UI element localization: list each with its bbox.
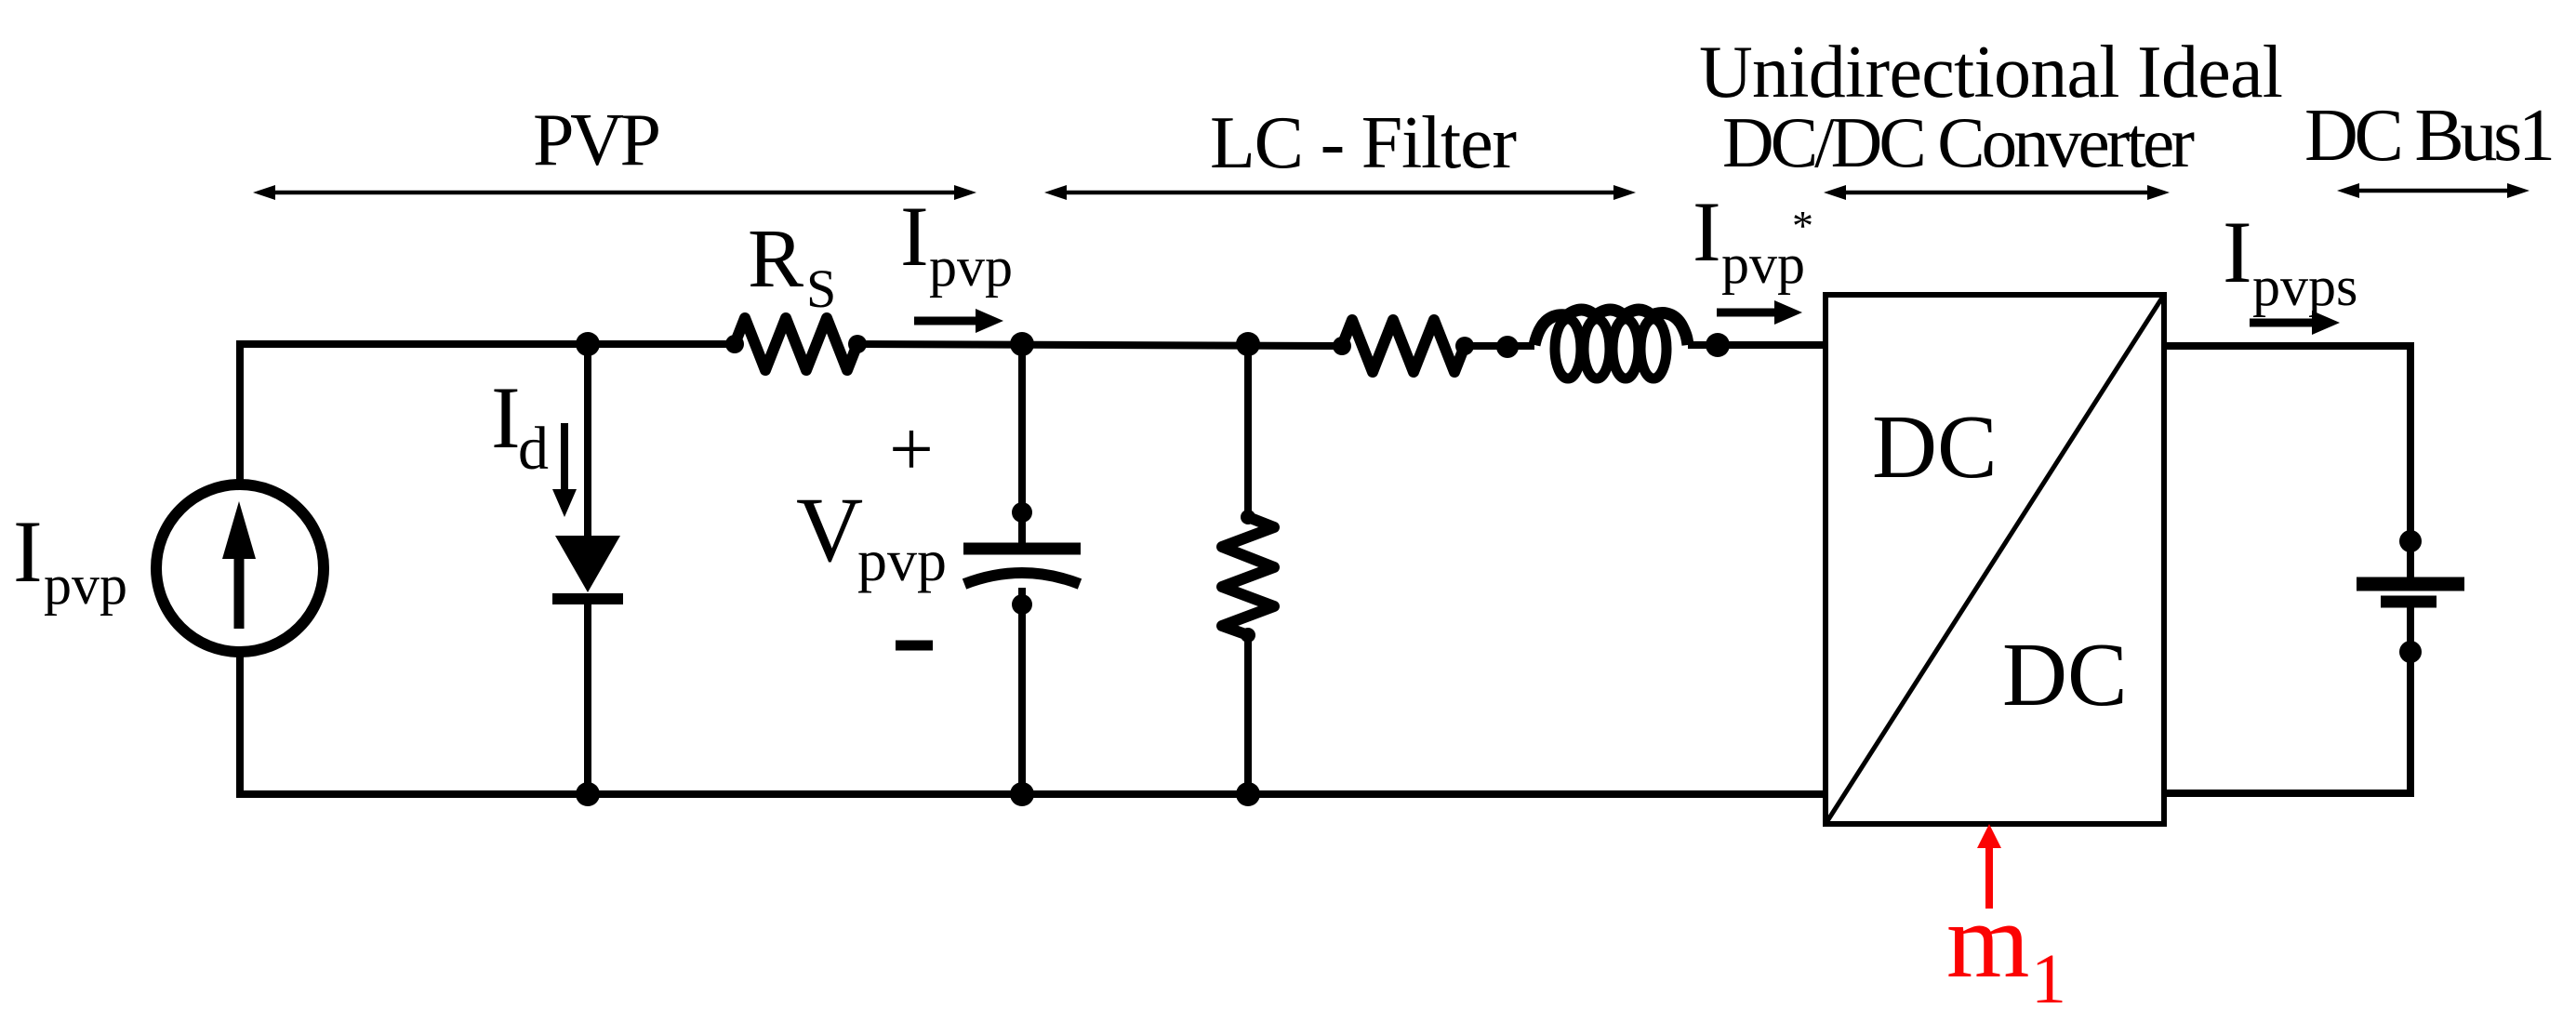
resistor R_L (series, filter) (1342, 320, 1465, 372)
wire diode branch bottom (584, 599, 591, 794)
node dot filter shunt bottom (1236, 782, 1260, 806)
wire capacitor branch bottom (1018, 588, 1026, 794)
capacitor C_pvp (963, 549, 1081, 584)
svg-text:I: I (900, 189, 929, 284)
wire capacitor branch top (1018, 344, 1026, 545)
wire top rail from inductor to converter (1688, 341, 1826, 349)
current source I_pvp (156, 484, 324, 652)
svg-text:DC/DC Converter: DC/DC Converter (1722, 102, 2195, 182)
wire I_d current arrow (552, 423, 577, 517)
wire diode branch top (584, 344, 591, 539)
node dot battery top (2399, 530, 2422, 552)
node dot diode top (576, 332, 600, 356)
wire I_pvp* current arrow (1717, 300, 1802, 325)
wire I_pvp current arrow (914, 309, 1003, 333)
svg-text:*: * (1792, 202, 1813, 249)
wire I_pvps current arrow (2250, 311, 2340, 335)
svg-text:DC Bus1: DC Bus1 (2304, 95, 2556, 177)
svg-text:pvp: pvp (857, 527, 947, 593)
svg-text:pvp: pvp (44, 554, 127, 616)
svg-text:DC: DC (1872, 397, 1998, 497)
svg-text:I: I (491, 368, 521, 467)
svg-text:pvps: pvps (2252, 256, 2357, 317)
wire top rail from filter resistor to inductor (1463, 342, 1534, 350)
node dot after inductor (1706, 333, 1730, 357)
wire left vertical bottom segment (236, 654, 244, 794)
svg-text:m: m (1946, 882, 2029, 1000)
svg-text:V: V (796, 478, 863, 581)
wire shunt resistor branch top (1244, 344, 1252, 517)
wire top rail from current source to R_S (240, 344, 737, 348)
svg-text:pvp: pvp (929, 236, 1013, 298)
wire DC Bus1 extent arrow (2337, 183, 2530, 198)
wire bottom rail from current source to converter (240, 790, 1826, 794)
wire shunt resistor branch bottom (1244, 635, 1252, 794)
node dot battery bottom (2399, 641, 2422, 663)
wire m1 control arrow (red) (1977, 824, 2001, 909)
inductor L_f (1534, 310, 1688, 378)
node dot between resistor and inductor (1496, 336, 1519, 358)
wire LC-Filter extent arrow (1044, 185, 1636, 200)
resistor R_f (shunt) (1222, 517, 1274, 635)
node dot filter shunt top (1236, 332, 1260, 356)
resistor R_S (735, 318, 857, 370)
svg-text:S: S (806, 259, 836, 319)
svg-text:+: + (889, 405, 934, 493)
svg-text:d: d (518, 415, 549, 483)
wire PVP extent arrow (253, 185, 976, 200)
wire top rail from R_S to filter series resistor (856, 344, 1344, 346)
wire DC/DC converter extent arrow (1824, 185, 2170, 200)
battery DC Bus1 source (2357, 584, 2464, 602)
svg-text:I: I (13, 502, 43, 601)
wire left vertical top segment (236, 344, 244, 484)
svg-text:1: 1 (2031, 940, 2066, 1018)
wire output bottom rail (2164, 604, 2410, 793)
svg-text:I: I (1693, 184, 1721, 279)
node dot diode bottom (576, 782, 600, 806)
node dot capacitor lower terminal (1012, 594, 1032, 615)
svg-text:I: I (2223, 203, 2252, 301)
svg-text:Unidirectional Ideal: Unidirectional Ideal (1699, 32, 2283, 113)
svg-text:R: R (748, 213, 803, 305)
svg-text:LC - Filter: LC - Filter (1210, 102, 1517, 184)
svg-text:DC: DC (2002, 625, 2128, 724)
wire output top rail (2164, 346, 2410, 580)
diode D (552, 536, 623, 599)
node dot capacitor top (1010, 332, 1034, 356)
svg-text:PVP: PVP (533, 100, 661, 181)
node label minus (896, 641, 933, 651)
converter U1 DC/DC box (1826, 295, 2164, 824)
node dot capacitor upper terminal (1012, 502, 1032, 523)
node dot capacitor bottom (1010, 782, 1034, 806)
